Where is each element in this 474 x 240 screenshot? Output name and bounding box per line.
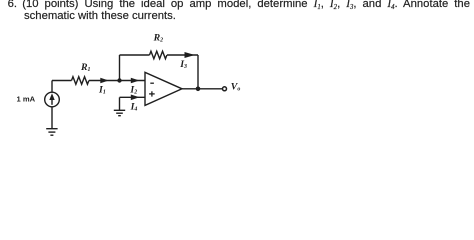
svg-text:I3: I3 [179,59,187,70]
svg-text:R2: R2 [153,32,164,43]
svg-text:I1: I1 [98,85,106,96]
svg-text:I2: I2 [129,85,137,96]
svg-text:I4: I4 [130,101,138,112]
svg-text:Vo: Vo [231,81,241,92]
svg-text:1 mA: 1 mA [17,95,36,104]
svg-text:R1: R1 [80,62,91,73]
